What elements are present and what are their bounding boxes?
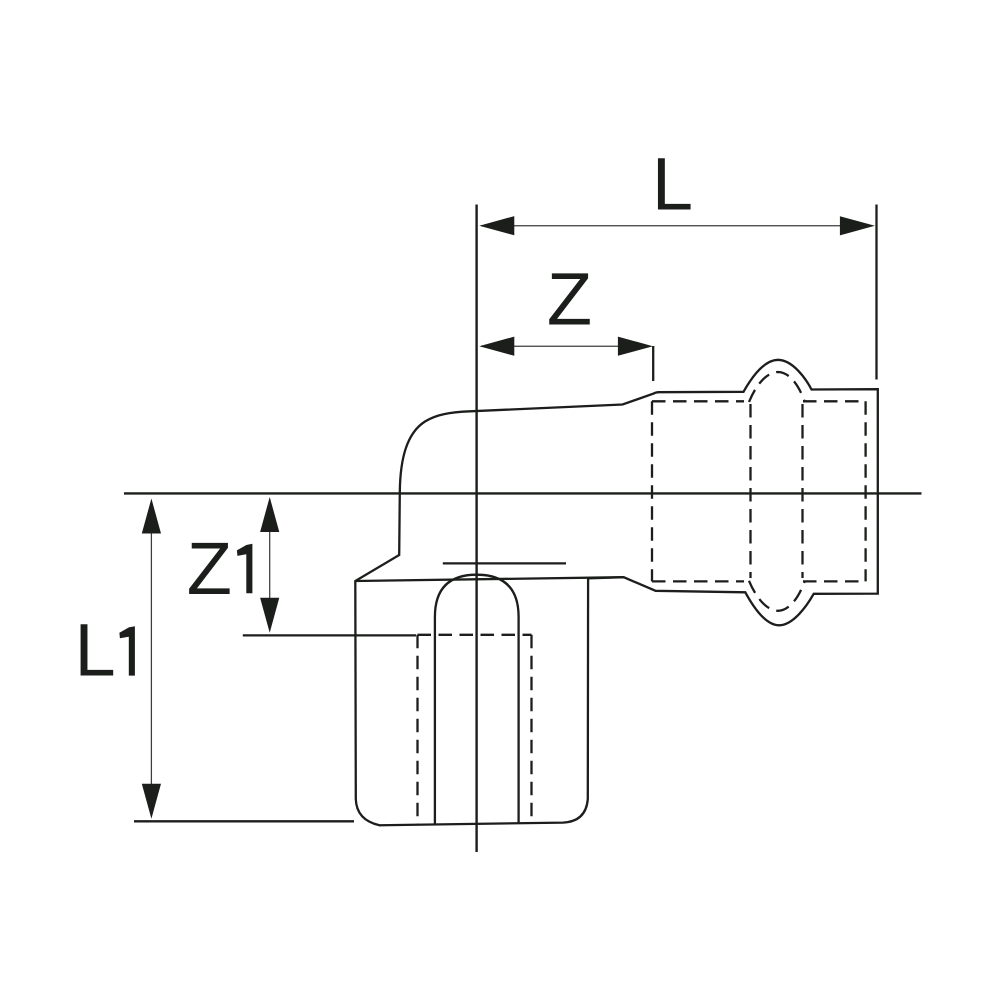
extension line for Z1 bottom (horizontal) bbox=[243, 634, 416, 636]
dashed bead inner arch top bbox=[749, 372, 805, 402]
inner bore arch in bottom socket bbox=[435, 575, 519, 824]
arrow Z left bbox=[479, 337, 514, 356]
label L1 digit 1 bbox=[119, 626, 134, 675]
svg-text:Z: Z bbox=[547, 258, 592, 341]
dashed bead inner arch bottom bbox=[749, 581, 805, 611]
extension line for L1 bottom (horizontal) bbox=[134, 820, 354, 822]
arrow Z1 top bbox=[260, 497, 279, 532]
arrow L left bbox=[479, 216, 514, 235]
extension line for Z (vertical) bbox=[652, 346, 654, 381]
dimension line Z bbox=[481, 345, 650, 347]
svg-text:L: L bbox=[75, 609, 116, 692]
dimension line L1 bbox=[150, 502, 152, 816]
dashed left edge right socket bbox=[651, 401, 653, 581]
hidden (dashed) inner contour, right socket bbox=[418, 372, 866, 824]
horizontal centerline bbox=[124, 492, 922, 494]
arrow L1 bottom bbox=[142, 784, 161, 819]
dashed bore right vertical bottom socket bbox=[530, 635, 532, 819]
arrow L right bbox=[840, 216, 875, 235]
shoulder line of bottom socket bbox=[355, 577, 623, 581]
dashed top edge right part bbox=[803, 400, 866, 402]
vertical centerline bbox=[475, 205, 477, 853]
svg-text:L: L bbox=[652, 143, 693, 226]
dashed bore top edge bottom socket bbox=[418, 634, 532, 636]
dashed bottom edge left part bbox=[652, 580, 744, 582]
dimension line L bbox=[481, 225, 872, 227]
fitting outer silhouette bbox=[355, 360, 878, 826]
arrow L1 top bbox=[142, 499, 161, 534]
dashed bottom edge right part bbox=[803, 580, 866, 582]
svg-text:Z: Z bbox=[187, 527, 232, 610]
dashed top edge left part bbox=[652, 400, 744, 402]
tube stop line bbox=[443, 562, 566, 564]
dashed bore left vertical bottom socket bbox=[416, 635, 418, 824]
dashed right edge right socket bbox=[864, 401, 866, 581]
arrow Z1 bottom bbox=[260, 598, 279, 633]
dimension line Z1 bbox=[269, 499, 271, 630]
dashed bead inner left vertical bbox=[749, 404, 751, 578]
label Z1 digit 1 bbox=[237, 544, 253, 593]
dashed bead inner right vertical bbox=[801, 404, 803, 578]
arrow Z right bbox=[618, 337, 653, 356]
extension line for L right (vertical) bbox=[875, 205, 877, 380]
